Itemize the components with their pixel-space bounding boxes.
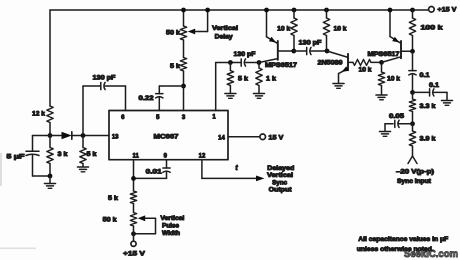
+15V terminal top right	[429, 7, 435, 13]
ground left 0.05	[380, 131, 391, 133]
node rail wiper	[205, 8, 210, 13]
resistor 5k to ground	[229, 63, 231, 71]
capacitor 0.1 to ground	[413, 91, 430, 93]
svg-text:0.1: 0.1	[429, 82, 440, 89]
svg-text:10 k: 10 k	[359, 67, 373, 74]
svg-text:13: 13	[112, 134, 119, 140]
svg-text:SeekIC.com: SeekIC.com	[404, 248, 458, 260]
wire 12k to node	[49, 123, 51, 136]
resistor 3k	[49, 136, 51, 148]
svg-text:Vertical: Vertical	[212, 25, 238, 32]
ground under 5k2	[225, 93, 236, 95]
svg-text:MPS6517: MPS6517	[265, 62, 298, 69]
capacitor 5uF electrolytic	[32, 136, 34, 152]
svg-text:MPS6517: MPS6517	[368, 51, 401, 58]
svg-text:Vertical: Vertical	[160, 215, 184, 222]
sync input open arrow	[408, 156, 413, 164]
svg-text:6: 6	[121, 115, 125, 121]
node 5k2 top	[228, 60, 233, 65]
svg-text:9: 9	[164, 153, 168, 159]
pot wiper arrow	[188, 29, 196, 35]
ground Q3 emitter	[333, 83, 344, 85]
capacitor 0.22	[159, 85, 183, 87]
transistor Q3 2N5089 npn	[327, 51, 353, 83]
terminal 15V pin14	[260, 134, 266, 140]
node pot bottom	[131, 231, 136, 236]
resistor 5k below pot	[183, 40, 185, 58]
resistor 10k pullup Q1base	[292, 8, 297, 13]
svg-text:Vertical: Vertical	[267, 172, 293, 179]
svg-text:130 pF: 130 pF	[234, 51, 256, 58]
node at 12k bottom	[48, 133, 53, 138]
node Q3 collector net	[325, 49, 330, 54]
wire diode to pin 13	[72, 135, 109, 137]
svg-text:5 k: 5 k	[238, 75, 249, 82]
resistor 3.3k	[412, 92, 414, 99]
svg-text:5 k: 5 k	[170, 63, 181, 70]
svg-text:Sync: Sync	[272, 180, 288, 187]
svg-text:14: 14	[218, 136, 225, 142]
node Q1 base net	[291, 49, 296, 54]
arrow output	[256, 176, 265, 182]
svg-text:Delayed: Delayed	[267, 165, 294, 172]
svg-text:5: 5	[156, 115, 160, 121]
svg-text:3: 3	[182, 115, 186, 121]
ground right 0.1	[442, 100, 453, 102]
svg-text:+15 V: +15 V	[123, 250, 146, 257]
capacitor 0.1 series	[412, 51, 414, 70]
wire left vertical	[49, 10, 51, 106]
resistor 5k pin13	[82, 136, 84, 148]
node Q2 base	[379, 60, 384, 65]
transistor Q2 MPS6517 pnp	[382, 10, 413, 62]
svg-text:130 pF: 130 pF	[299, 39, 322, 46]
svg-text:0.05: 0.05	[389, 113, 405, 120]
svg-text:All capacitance values in μF: All capacitance values in μF	[358, 236, 448, 243]
svg-text:t: t	[235, 165, 238, 172]
capacitor 130pF coupling Q1	[240, 59, 242, 66]
resistor 10k Q2 base to ground	[381, 62, 383, 72]
svg-text:MC667: MC667	[154, 133, 180, 140]
svg-text:100 k: 100 k	[421, 25, 444, 32]
node 3k bottom	[48, 174, 53, 179]
svg-text:+15 V: +15 V	[437, 6, 457, 13]
svg-text:50 k: 50 k	[103, 217, 118, 224]
wire 5uF bottom to node	[33, 175, 51, 177]
resistor 100k	[410, 8, 415, 13]
ground under 5k	[78, 166, 89, 168]
node pin11	[131, 176, 136, 181]
svg-text:2N5089: 2N5089	[318, 60, 344, 67]
resistor 5k pulse	[130, 191, 136, 204]
capacitor 130pF to 2N5089	[294, 50, 307, 52]
node rail Q2 emitter	[388, 8, 393, 13]
diode D1	[62, 132, 72, 139]
node 0.05 branch	[410, 121, 415, 126]
wire node to diode	[33, 135, 62, 137]
svg-text:130 pF: 130 pF	[93, 75, 116, 82]
scan artifact bottom	[0, 248, 36, 250]
svg-text:1: 1	[212, 114, 216, 120]
resistor 3.9k	[412, 124, 414, 131]
node 0.1 branch	[410, 90, 415, 95]
svg-text:Pulse: Pulse	[162, 223, 180, 230]
resistor 10k pullup Q3	[324, 8, 329, 13]
svg-text:3.9 k: 3.9 k	[420, 136, 437, 143]
svg-text:–20 V(p-p): –20 V(p-p)	[396, 169, 434, 176]
svg-text:0.22: 0.22	[139, 95, 155, 102]
svg-text:10 k: 10 k	[334, 26, 348, 33]
svg-text:11: 11	[133, 154, 140, 160]
svg-text:Sync Input: Sync Input	[397, 178, 431, 185]
node pin3 branch	[181, 84, 186, 89]
wire pin 12 output	[201, 160, 203, 179]
potentiometer 50k vertical pulse width	[130, 213, 136, 227]
svg-text:10 k: 10 k	[387, 75, 401, 82]
svg-text:3 k: 3 k	[58, 151, 69, 158]
wire 5k to pin 3	[183, 71, 185, 111]
svg-text:12: 12	[199, 153, 206, 159]
capacitor C 130pF feedback	[82, 86, 84, 136]
svg-text:50 k: 50 k	[166, 30, 181, 37]
ground under 10k	[376, 94, 387, 96]
capacitor 0.01 pin9	[166, 160, 168, 168]
sync input lead	[412, 146, 414, 156]
node rail pot	[181, 8, 186, 13]
svg-text:0.01: 0.01	[146, 169, 163, 176]
node Q1 collector	[257, 60, 262, 65]
node diode-cathode	[81, 133, 86, 138]
svg-text:0.1: 0.1	[420, 72, 431, 79]
node rail Q1 emitter	[264, 8, 269, 13]
wire pin1 to coupling net	[215, 63, 217, 111]
svg-text:3.3 k: 3.3 k	[420, 103, 437, 110]
wire pin 11 down	[133, 160, 135, 191]
node Q2 collector	[410, 49, 415, 54]
power rail +15V top	[50, 9, 429, 11]
svg-text:Width: Width	[162, 230, 180, 237]
wire to ground	[49, 176, 51, 183]
terminal +15V bottom	[131, 241, 136, 246]
svg-text:12 k: 12 k	[32, 111, 46, 118]
capacitor 0.05 to ground	[398, 123, 412, 125]
potentiometer 50k vertical delay	[183, 10, 185, 26]
resistor R 12k	[47, 106, 53, 123]
svg-text:5 μF: 5 μF	[7, 153, 25, 160]
svg-text:10 k: 10 k	[277, 26, 291, 33]
ground under 3k	[45, 183, 56, 185]
svg-text:5 k: 5 k	[108, 195, 119, 202]
resistor 10k horizontal	[353, 59, 371, 65]
svg-text:5 k: 5 k	[87, 151, 98, 158]
svg-text:15 V: 15 V	[268, 134, 284, 141]
wire pin 14 to 15V	[228, 136, 260, 138]
resistor 1k	[258, 63, 260, 69]
svg-text:Output: Output	[269, 187, 292, 194]
IC U1 MC667 box	[109, 111, 228, 160]
pot wiper arrow 2	[138, 215, 146, 221]
svg-text:1 k: 1 k	[266, 75, 277, 82]
scan artifact left	[0, 153, 2, 186]
svg-text:Delay: Delay	[215, 33, 234, 40]
ground under 1k	[254, 93, 265, 95]
transistor Q1 MPS6517 pnp	[259, 10, 294, 63]
